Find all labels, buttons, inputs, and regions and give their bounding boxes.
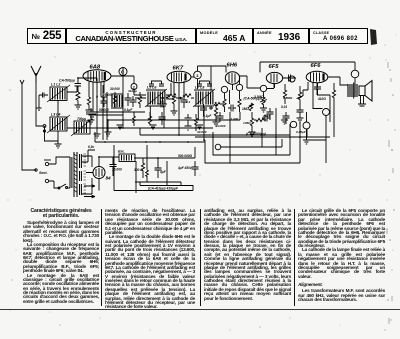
ground below coils (55, 141, 62, 148)
top right AVC wire (260, 62, 355, 72)
svg-text:84: 84 (106, 176, 112, 181)
svg-text:6A8: 6A8 (90, 65, 101, 71)
detector RC resistor (250, 112, 253, 132)
svg-text:3: 3 (196, 74, 198, 78)
svg-text:6F6: 6F6 (311, 63, 322, 69)
ground mid c (196, 125, 203, 129)
mid row resistor b (138, 92, 141, 108)
svg-text:700μμ: 700μμ (77, 117, 86, 121)
tube 6F6 (306, 71, 328, 83)
osc coil wires (67, 122, 97, 134)
svg-text:3,3MΩ: 3,3MΩ (254, 95, 264, 99)
header box modele (196, 28, 253, 44)
mains wires (49, 157, 70, 188)
osc section verticals (103, 85, 107, 140)
header box classe (309, 28, 368, 44)
ground osc coil (94, 134, 101, 138)
caps under IFT2 (200, 104, 213, 116)
wire screen dropper (333, 83, 335, 137)
osc grounds (89, 115, 96, 119)
ground detector (249, 132, 256, 136)
ground 6F6 (303, 140, 310, 144)
svg-text:30.000: 30.000 (110, 87, 120, 91)
row2 cap x162 (159, 112, 166, 125)
row2 cap x270 (267, 108, 274, 120)
grid resistor 6F6 (283, 84, 286, 104)
6K7 bypass cap left (157, 101, 167, 108)
header box Nº 255 (27, 28, 66, 44)
svg-text:1MΩ: 1MΩ (242, 107, 249, 111)
power resistor x147 (146, 170, 149, 177)
tone cap (297, 106, 304, 118)
right margin smudges (387, 62, 393, 324)
rule between col3 col4 (294, 209, 295, 306)
junction dots bus (77, 77, 301, 159)
signal chain wire y98 (135, 97, 194, 99)
earth lead left edge (20, 80, 36, 170)
speaker field coil (358, 96, 366, 107)
svg-text:4μF 450v: 4μF 450v (177, 166, 192, 170)
svg-text:410μμ: 410μμ (127, 89, 137, 93)
nested bus rectangles right (205, 122, 300, 163)
osc cap c (130, 96, 137, 107)
svg-text:15.000: 15.000 (112, 168, 122, 172)
bus y142 mid (95, 132, 205, 142)
6K7 cathode resistor (172, 96, 175, 111)
long bus wires mid (123, 83, 213, 128)
node circle 6 (260, 85, 266, 91)
svg-text:6K7: 6K7 (173, 66, 184, 72)
IFT2 trimmers (197, 81, 212, 86)
svg-text:4μF: 4μF (159, 170, 167, 174)
chain resistor a (166, 94, 176, 97)
chassis arrow a (84, 185, 95, 188)
bus y137 long (195, 136, 330, 138)
svg-text:2MΩ: 2MΩ (262, 114, 270, 118)
6F6 cathode cap (314, 83, 321, 95)
row2 resistor x150 (148, 112, 151, 125)
detector cap (262, 115, 270, 122)
rule between col2 col3 (200, 209, 201, 306)
svg-text:0,01: 0,01 (281, 105, 287, 109)
wire between coils (45, 101, 59, 142)
ground mid d (281, 120, 288, 124)
node circle 8 (351, 70, 359, 78)
text column 4 (298, 209, 385, 303)
extend avc bus (67, 127, 123, 129)
row2 cap x222 (217, 112, 224, 122)
ground below R1 (75, 105, 82, 109)
wire 6H6 to 6F5 (240, 76, 275, 89)
svg-text:L3 L4: L3 L4 (51, 113, 60, 117)
page edge smudge right of header (370, 29, 377, 45)
vertical drop x230 (229, 112, 231, 163)
screen dropper resistor 6F6 (332, 86, 335, 104)
node circle 10 (303, 122, 310, 129)
node circle bottom (215, 144, 221, 150)
switch contact node (43, 125, 46, 128)
node circle 6K7 plate (194, 71, 202, 79)
tube 6A8 pins (89, 81, 104, 123)
wire rect to 6H6 (211, 66, 226, 90)
filter cap 4uF (155, 158, 162, 178)
tube 6K7 (167, 71, 191, 83)
earth lead node (35, 169, 37, 171)
node circle 9 (323, 109, 330, 116)
grid resistor R1 (76, 92, 80, 105)
screen cap cluster (101, 97, 108, 107)
power vertical x147 (146, 145, 148, 182)
svg-text:500.000Ω: 500.000Ω (178, 154, 193, 158)
pilot circle C (119, 68, 127, 76)
wire antenna down to band switch (36, 83, 43, 126)
ground 6K7 (171, 111, 178, 115)
bleeder resistor (141, 158, 144, 178)
AVC cap (228, 105, 236, 112)
node circle after 6A8 (131, 84, 137, 90)
svg-text:(CA-410μμ) 410μμF: (CA-410μμ) 410μμF (148, 187, 179, 191)
tube 6H6 (225, 72, 239, 84)
power rect loop (136, 161, 167, 193)
chassis arrow b (84, 195, 95, 198)
svg-text:6,3v: 6,3v (88, 145, 94, 149)
node circle 7 (289, 76, 295, 82)
rule between col1 col2 (101, 209, 102, 306)
B+ line choke to right (135, 147, 195, 158)
IFT1 trimmers (149, 81, 164, 86)
6K7 screen cap (181, 96, 188, 108)
chain resistor b (183, 94, 191, 97)
text column 1 (23, 209, 99, 304)
rectifier tube 84 (93, 167, 105, 179)
node circle 5 (236, 84, 242, 90)
svg-text:0,1: 0,1 (186, 100, 191, 104)
heater wires (82, 150, 95, 162)
AVC filter resistor (248, 103, 254, 111)
svg-text:Sect.: Sect. (39, 171, 48, 175)
svg-text:CA-500μμ: CA-500μμ (59, 79, 75, 83)
IF transformer 2 (193, 86, 215, 108)
svg-text:0,05μF: 0,05μF (296, 130, 306, 134)
ground mid b (150, 125, 157, 129)
cap under 6K7 region (185, 114, 192, 126)
chain arrows (160, 97, 182, 99)
svg-text:50.000: 50.000 (99, 108, 109, 112)
ground tone (297, 118, 304, 122)
osc horizontals (86, 112, 145, 115)
antenna (31, 66, 41, 83)
resistor row two: AVC resistor (214, 102, 217, 122)
coupling cap 6F5-6F6 (283, 75, 296, 82)
ground AVC (213, 122, 220, 126)
IFT2 bottom drops (198, 106, 204, 140)
filter cap 8uF (110, 157, 117, 176)
vertical drop x326 ext (325, 140, 327, 163)
node circle 2b (290, 121, 296, 127)
wire IFT1 out to 6K7 (166, 83, 171, 95)
svg-text:6F5: 6F5 (269, 64, 280, 70)
svg-text:9: 9 (96, 95, 98, 99)
mid row resistor a (113, 92, 116, 108)
tone pot (297, 86, 304, 106)
transformer to rectifier wires (82, 156, 93, 194)
ground under 6K7 region (185, 126, 192, 130)
text column 3 (204, 209, 291, 301)
6F6 cathode network (303, 82, 308, 96)
header box annee (253, 28, 309, 44)
on-off switch (59, 184, 70, 188)
wire 6K7 plate (191, 66, 211, 89)
tube 6A8 (83, 70, 111, 82)
ground mid a (105, 132, 112, 136)
osc coil L5 (71, 119, 92, 136)
6F6 screen wire (317, 83, 330, 122)
vertical drop x276 (275, 108, 277, 155)
svg-text:410Ω: 410Ω (317, 97, 326, 101)
vertical drop x307 (306, 129, 308, 137)
mid row cap a (125, 93, 132, 106)
resistor under IFT2 (195, 114, 198, 131)
svg-text:30.000: 30.000 (197, 130, 207, 134)
row2 resistor x218 horizontal (214, 102, 224, 105)
wire 6F6 plate to transformer (328, 77, 355, 85)
filter choke (118, 150, 135, 162)
svg-text:13.600: 13.600 (216, 124, 226, 128)
power transformer (70, 152, 86, 197)
ground pot (260, 108, 267, 112)
tube 6K7 pins (174, 81, 184, 114)
osc resistor c (133, 112, 136, 126)
wire rectifier up to choke (99, 157, 119, 167)
trimmer cap left coil (37, 93, 49, 111)
bottom page rule (0, 308, 400, 311)
tube drop wires (179, 84, 275, 135)
padder capacitor (86, 108, 96, 120)
header box constructeur (66, 28, 196, 44)
node circle 4 (221, 86, 227, 92)
output transformer (348, 83, 357, 99)
grid capacitor CA-500uu (75, 78, 82, 92)
svg-text:0,1μF: 0,1μF (124, 108, 133, 112)
bus rectangle left (99, 145, 193, 191)
output filter cap (192, 161, 199, 176)
svg-text:6H6: 6H6 (227, 63, 238, 69)
svg-text:11.000: 11.000 (229, 117, 239, 121)
speaker (359, 81, 372, 102)
vertical drop x262 (261, 128, 263, 147)
row2 resistor x256 horizontal (254, 118, 266, 121)
ground osc grid (86, 110, 93, 114)
osc grid resistor (87, 97, 90, 110)
svg-text:Exc.: Exc. (118, 150, 125, 154)
diode load resistor b (238, 91, 241, 112)
svg-text:138Ω: 138Ω (243, 121, 251, 125)
tube 6F5 (266, 72, 282, 83)
switch contact node 2 (43, 130, 45, 132)
ground padder (88, 120, 95, 124)
mains terminals (39, 160, 51, 183)
IFT1 bottom drops (150, 106, 164, 128)
osc coil bars 2 (111, 94, 123, 108)
svg-text:L1 L2: L1 L2 (51, 83, 60, 87)
coil L3 L4 aerial secondary (47, 113, 70, 134)
IF transformer 1 (145, 86, 167, 108)
wire grid cap to 6A8 grid (78, 78, 97, 82)
svg-text:(CA-5000μμ): (CA-5000μμ) (246, 132, 267, 136)
coil L1 L2 aerial (47, 83, 70, 103)
diode load resistor a (223, 93, 226, 112)
text column 2 (105, 209, 195, 310)
wire 6A8 plate to right (111, 68, 134, 84)
volume potentiometer (260, 92, 267, 108)
wires 6F6 bottom (307, 82, 327, 140)
wire IFT1 in (134, 90, 146, 96)
wire L2 top to grid cap (67, 86, 77, 92)
extra cap x286 (283, 112, 290, 124)
svg-text:0,5MΩ: 0,5MΩ (283, 96, 293, 100)
